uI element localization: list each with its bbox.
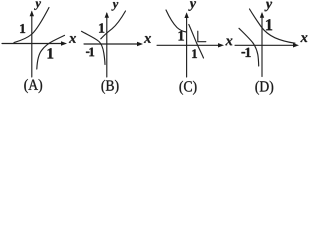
y-axis D xyxy=(261,14,263,77)
label x (C) xyxy=(225,39,232,46)
y arrowhead A xyxy=(30,11,34,17)
label 1 on y-axis (A) xyxy=(20,24,25,33)
label y (D) xyxy=(264,2,272,11)
label x (B) xyxy=(144,36,151,43)
label y (B) xyxy=(111,2,118,10)
y arrowhead D xyxy=(260,12,264,18)
x arrowhead C xyxy=(218,43,224,47)
label 1 on y-axis (B) xyxy=(99,23,104,32)
x arrowhead D xyxy=(293,43,299,47)
label y (C) xyxy=(188,1,196,10)
caption (A) xyxy=(24,79,42,93)
label -1 on x-axis (B) xyxy=(86,48,94,57)
log curve B xyxy=(82,31,106,64)
label 1 on y-axis (D) xyxy=(266,19,272,30)
tick mark x=1 (C) xyxy=(198,31,206,42)
log curve C xyxy=(189,25,204,59)
label 1 on y-axis (C) xyxy=(179,31,184,41)
label y (A) xyxy=(34,1,41,9)
log curve D xyxy=(239,28,259,66)
y-axis A xyxy=(31,12,33,77)
x-axis A xyxy=(2,43,64,45)
caption (B) xyxy=(102,80,119,94)
x-axis D xyxy=(235,44,296,46)
caption (D) xyxy=(255,81,273,95)
label x (D) xyxy=(300,35,307,42)
label -1 on x-axis (D) xyxy=(242,48,251,57)
exp curve D xyxy=(250,9,296,43)
x-axis B xyxy=(84,43,140,45)
y-axis B xyxy=(106,14,108,78)
exp curve C xyxy=(166,10,186,32)
x-axis C xyxy=(157,44,221,46)
y-axis C xyxy=(186,14,188,77)
caption (C) xyxy=(180,81,197,95)
label 1 on x-axis (A) xyxy=(48,48,54,58)
label x (A) xyxy=(69,36,76,43)
x arrowhead A xyxy=(61,41,67,45)
exp curve A xyxy=(14,8,49,43)
exp curve B xyxy=(101,11,126,39)
y arrowhead C xyxy=(184,12,188,18)
x arrowhead B xyxy=(137,42,143,46)
label 1 on x-axis (C) xyxy=(192,49,197,58)
log curve A xyxy=(37,35,65,69)
y arrowhead B xyxy=(105,12,109,18)
